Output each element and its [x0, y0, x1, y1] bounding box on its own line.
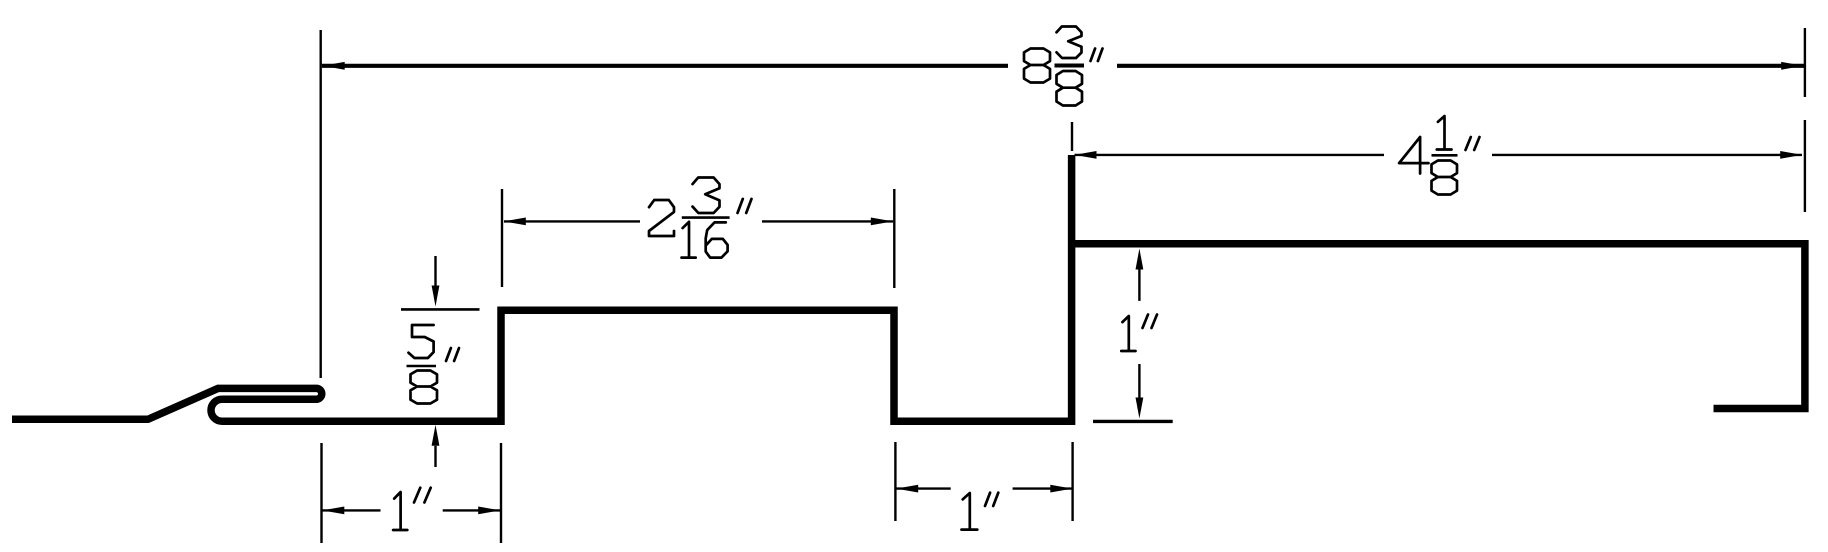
fraction bar 8 3/8 — [1055, 64, 1085, 68]
dimension line bottom-right 1in right segment — [1013, 487, 1073, 489]
dimension text 5/8 inch — [409, 325, 460, 404]
1in vertical bottom arrowhead pointing down — [1136, 398, 1144, 419]
dimension text 4 1/8 inch — [1399, 116, 1479, 195]
fraction bar 2 3/16 — [682, 216, 730, 219]
arrowhead bottom-left 1in right — [478, 507, 500, 515]
extension line bottom-right 1in right — [1071, 442, 1073, 521]
arrowhead bottom-right 1in left — [896, 485, 918, 493]
dimension line 8 3/8 right segment — [1117, 64, 1804, 68]
dimension line bottom-left 1in left segment — [322, 509, 380, 511]
arrowhead 2 3/16 left — [504, 218, 526, 226]
dimension text 1 inch (vertical dim) — [1121, 315, 1157, 352]
dimension line bottom-right 1in left segment — [896, 487, 951, 489]
arrowhead bottom-left 1in left — [322, 507, 344, 515]
dimension line 8 3/8 left segment — [322, 64, 1008, 68]
arrowhead 8 3/8 right — [1781, 62, 1803, 70]
dimension line 4 1/8 right segment — [1492, 154, 1802, 156]
dimension line 2 3/16 left segment — [504, 220, 640, 222]
panel profile: top face and right edge return — [1068, 244, 1805, 409]
extension line rib left (2 3/16) — [501, 189, 503, 287]
dimension text 2 3/16 inch — [649, 178, 752, 258]
arrowhead bottom-right 1in right — [1050, 485, 1072, 493]
extension line batten leg top (4 1/8 left) — [1071, 122, 1073, 151]
1in vertical lower line — [1138, 364, 1140, 398]
extension line right lower (4 1/8) — [1804, 120, 1806, 212]
arrowhead 8 3/8 left — [323, 62, 345, 70]
5/8 bottom arrowhead pointing up — [432, 425, 440, 446]
dimension line 2 3/16 right segment — [762, 220, 893, 222]
dimension line 4 1/8 left segment — [1075, 154, 1385, 156]
extension line rib right (2 3/16) — [893, 189, 895, 288]
dimension line bottom-left 1in right segment — [443, 509, 501, 511]
arrowhead 4 1/8 left — [1075, 151, 1097, 159]
extension line left (hem end) x=320.7 — [320, 30, 322, 378]
5/8 top arrowhead pointing down — [432, 286, 440, 307]
arrowhead 2 3/16 right — [871, 218, 893, 226]
fraction bar 4 1/8 — [1432, 154, 1458, 157]
5/8 reference tick at rib top — [401, 308, 480, 311]
5/8 top leader line — [434, 256, 436, 286]
1in vertical top arrowhead pointing up — [1136, 249, 1144, 270]
arrowhead 4 1/8 right — [1780, 151, 1802, 159]
dimension text 8 3/8 inch — [1024, 27, 1103, 106]
dimension text 1 inch (bottom left) — [393, 488, 431, 530]
fraction bar 5/8 — [407, 365, 437, 368]
dimension text 1 inch (bottom right) — [962, 493, 999, 530]
extension line bottom-left 1in right — [500, 443, 502, 543]
panel profile: hem lock, lower pan, rib, pan, batten leg — [12, 155, 1072, 421]
1in vertical upper line — [1138, 270, 1140, 301]
5/8 bottom leader line — [434, 446, 436, 467]
extension line bottom-left 1in left — [320, 443, 322, 543]
extension line bottom-right 1in left — [894, 442, 896, 521]
extension line right upper (8 3/8) — [1804, 28, 1806, 97]
1in vertical reference tick at pan bottom — [1093, 420, 1173, 423]
